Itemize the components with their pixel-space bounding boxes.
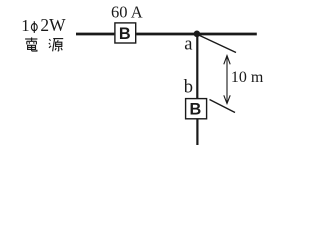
wire: vertical a to b <box>196 34 198 98</box>
wire: breaker to end, through node a <box>136 33 257 36</box>
svg-text:60 A: 60 A <box>111 3 143 22</box>
node a label <box>184 34 192 54</box>
breaker B2 <box>186 99 207 119</box>
svg-text:B: B <box>190 101 202 119</box>
svg-text:B: B <box>119 25 131 43</box>
wire: feed from source to breaker <box>76 33 114 36</box>
dimension arrow 10 m (double headed) <box>224 56 230 104</box>
svg-text:10 m: 10 m <box>231 69 264 86</box>
svg-text:1: 1 <box>21 16 29 35</box>
kanji 電 (electric) <box>25 37 37 51</box>
svg-text:b: b <box>184 78 193 98</box>
branch wire: diagonal near node b <box>210 100 236 113</box>
node b label <box>184 78 193 98</box>
kanji 源 (source) <box>49 39 63 52</box>
svg-text:2W: 2W <box>40 15 66 35</box>
node a junction dot <box>194 31 201 38</box>
svg-text:a: a <box>184 34 192 54</box>
breaker B1 (60A) <box>115 23 136 43</box>
wire: below breaker B2 <box>196 120 198 146</box>
label 10 m <box>231 69 264 86</box>
label 60 A <box>111 3 143 22</box>
branch wire: diagonal from node a <box>198 35 237 53</box>
source label 1φ2W <box>21 15 66 35</box>
